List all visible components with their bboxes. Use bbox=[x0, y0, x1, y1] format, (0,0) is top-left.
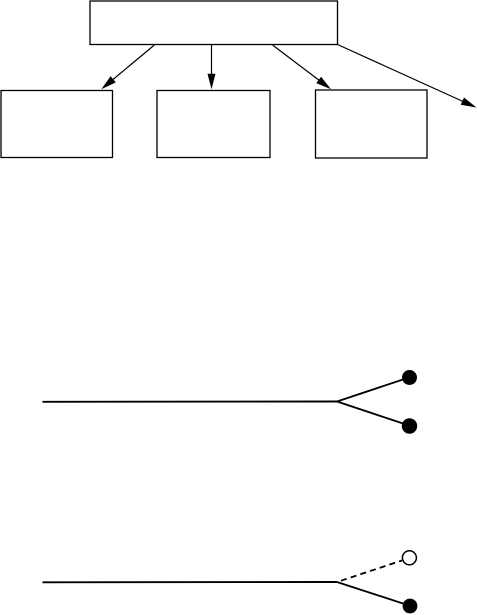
wire W1a branch up bbox=[337, 380, 403, 402]
child box B3 bbox=[316, 90, 428, 158]
wire W1 horizontal (upper fork) bbox=[43, 401, 338, 403]
arrow A2 to B2 bbox=[208, 45, 216, 89]
node N1 filled bbox=[402, 370, 417, 385]
node N4 filled bbox=[403, 599, 418, 614]
node N2 filled bbox=[402, 418, 417, 433]
child box B1 bbox=[1, 91, 113, 158]
root box bbox=[90, 1, 338, 45]
arrow A3 to B3 bbox=[273, 45, 332, 89]
wire W2 horizontal (lower fork) bbox=[43, 581, 338, 583]
wire W2b branch down bbox=[337, 582, 403, 604]
arrow A1 to B1 bbox=[101, 45, 154, 89]
child box B2 bbox=[157, 91, 270, 158]
node N3 open bbox=[402, 551, 416, 565]
wire W1b branch down bbox=[337, 402, 403, 424]
wire W2a dashed branch up bbox=[337, 561, 402, 583]
arrow A4 off right bbox=[338, 45, 477, 108]
